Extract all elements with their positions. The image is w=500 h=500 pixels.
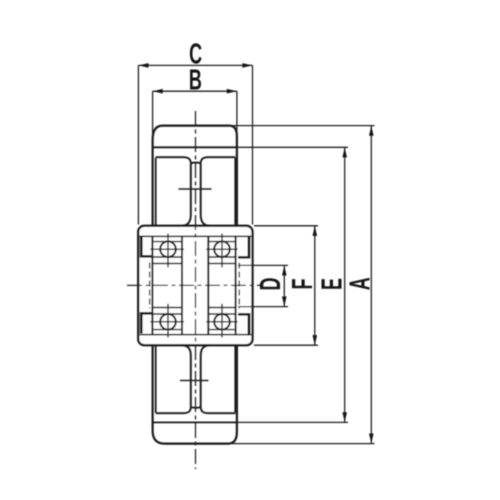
centerline tick lower web xyxy=(180,380,209,382)
label E xyxy=(316,278,348,290)
rim upper line with web fillets xyxy=(156,157,236,163)
hub housing outline xyxy=(138,226,252,345)
svg-text:A: A xyxy=(344,277,376,290)
bearing side faces xyxy=(152,236,235,334)
svg-text:B: B xyxy=(189,64,202,96)
inner race lines xyxy=(152,264,235,308)
dimension B line xyxy=(153,90,237,92)
web lower xyxy=(183,345,210,406)
seal bar top-right xyxy=(238,237,250,259)
dimension B extension lines xyxy=(153,91,237,141)
ball bottom-right xyxy=(214,314,230,330)
svg-text:D: D xyxy=(255,278,287,291)
dimension E arrows xyxy=(342,147,347,422)
tire outline xyxy=(153,126,237,444)
dimension A line xyxy=(370,126,372,444)
seal bar bottom-right xyxy=(238,313,250,335)
rim lower line with web fillets xyxy=(156,407,236,413)
web upper xyxy=(183,164,210,226)
centerline tick upper web xyxy=(179,188,212,190)
tire inner line top xyxy=(154,146,237,148)
ball top-left xyxy=(160,241,176,257)
seal bar bottom-left xyxy=(140,312,152,334)
dimension D line xyxy=(283,265,285,306)
dimension E line xyxy=(344,147,346,422)
svg-text:F: F xyxy=(287,279,319,290)
ball tangent lines lower bearings xyxy=(152,314,235,330)
dimension F extension lines xyxy=(254,226,318,345)
dimension C extension lines xyxy=(138,65,252,224)
wire horizontal centerline xyxy=(127,284,261,286)
label A xyxy=(344,277,376,290)
dimension B arrows xyxy=(153,89,237,94)
label F xyxy=(287,279,319,290)
dimension C line xyxy=(138,64,252,66)
dimension D arrows xyxy=(282,265,287,306)
dimension A extension lines xyxy=(230,126,375,444)
seal bar top-left xyxy=(140,237,152,258)
label D xyxy=(255,278,287,291)
dimension D extension lines xyxy=(238,265,288,306)
label C xyxy=(189,38,202,70)
rim upper sides xyxy=(156,158,236,226)
dimension E extension lines xyxy=(236,147,348,422)
dimension C arrows xyxy=(138,63,252,68)
ball bottom-left xyxy=(160,314,176,330)
ball center ticks horizontal xyxy=(150,249,237,322)
hub bore top line xyxy=(140,235,252,237)
rim lower sides xyxy=(156,345,236,413)
tire inner line bottom xyxy=(154,421,237,423)
ball center ticks vertical xyxy=(168,234,222,338)
dimension F arrows xyxy=(313,226,318,345)
ball tangent lines upper bearings xyxy=(152,242,235,257)
hub bore bottom line xyxy=(140,334,252,336)
bore hidden edge right (dashed) xyxy=(238,263,240,309)
bore hidden edge left (dashed) xyxy=(149,263,151,309)
dimension F line xyxy=(314,226,316,345)
ball top-right xyxy=(214,241,230,257)
dimension A arrows xyxy=(369,126,374,444)
label B xyxy=(189,64,202,96)
wire vertical centerline xyxy=(195,111,197,469)
